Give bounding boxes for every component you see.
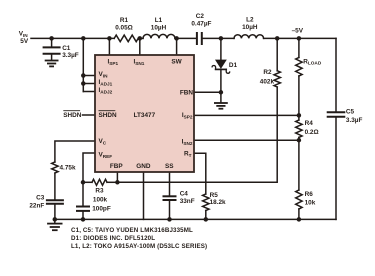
wire R4 to ISN2 node: [298, 137, 300, 190]
svg-text:18.2k: 18.2k: [210, 199, 226, 206]
wire R3 to FBP node: [107, 181, 117, 183]
wire right column top to C5: [335, 38, 337, 111]
resistor RLOAD: [296, 58, 302, 77]
wire RLOAD top: [298, 38, 300, 57]
svg-text:–5V: –5V: [292, 28, 304, 35]
wire top rail left VIN to R1: [31, 37, 114, 39]
wire VIN column: [82, 38, 84, 91]
svg-text:0.2Ω: 0.2Ω: [305, 129, 319, 136]
capacitor C1: [51, 38, 53, 46]
wire stub IADJ1 pin: [83, 83, 95, 85]
wire RLOAD to ISP2 node: [298, 76, 300, 120]
svg-text:C2: C2: [196, 13, 205, 20]
svg-text:C3: C3: [36, 194, 45, 201]
wire stub FBP pin: [116, 172, 118, 182]
svg-text:GND: GND: [136, 163, 151, 170]
node IADJ1 pin: [81, 81, 86, 86]
svg-text:VIN: VIN: [19, 31, 29, 38]
svg-text:L1, L2: TOKO A915AY-100M (D53L: L1, L2: TOKO A915AY-100M (D53LC SERIES): [71, 243, 207, 250]
ground bottom left: [54, 219, 56, 222]
svg-text:10µH: 10µH: [151, 24, 167, 31]
ground below C1: [46, 60, 58, 62]
resistor R5: [203, 194, 209, 211]
svg-text:L1: L1: [155, 17, 163, 24]
wire RT pin to R5: [194, 153, 206, 194]
wire R2 to top rail: [276, 38, 278, 70]
svg-text:SW: SW: [171, 59, 182, 66]
node C4 bottom: [167, 217, 172, 222]
ground below D1: [215, 102, 227, 104]
node R5 bottom: [204, 217, 209, 222]
svg-text:402k: 402k: [260, 79, 275, 86]
svg-text:R3: R3: [95, 188, 104, 195]
capacitor C2: [196, 33, 198, 44]
svg-text:FBP: FBP: [110, 163, 124, 170]
capacitor C5: [328, 111, 345, 113]
resistor R6: [296, 190, 302, 209]
node D1 FBN: [219, 90, 224, 95]
wire L2 to right corner: [264, 37, 336, 39]
capacitor C3: [47, 199, 63, 201]
node SW: [174, 36, 179, 41]
svg-text:R6: R6: [305, 191, 314, 198]
svg-text:RLOAD: RLOAD: [303, 58, 322, 65]
wire VREF junction to R3: [83, 181, 92, 183]
wire R6 to bottom rail: [298, 209, 300, 219]
svg-text:R2: R2: [263, 69, 272, 76]
svg-text:4.75k: 4.75k: [60, 164, 76, 171]
svg-text:C5: C5: [346, 108, 355, 115]
svg-text:C1, C5: TAIYO YUDEN LMK316BJ33: C1, C5: TAIYO YUDEN LMK316BJ335ML: [71, 227, 193, 234]
wire ISN2 pin: [194, 139, 299, 141]
node R2 top: [275, 36, 280, 41]
svg-text:10k: 10k: [305, 199, 316, 206]
svg-text:C1: C1: [62, 45, 71, 52]
node D1 top: [219, 36, 224, 41]
resistor 4.75k: [52, 162, 58, 173]
svg-text:D1: DIODES INC. DFL5120L: D1: DIODES INC. DFL5120L: [71, 235, 155, 242]
inductor L1: [143, 34, 175, 38]
capacitor C4: [164, 195, 176, 197]
node R6 bottom: [297, 217, 302, 222]
node 100pF bottom: [81, 217, 86, 222]
resistor R4: [296, 120, 302, 137]
svg-text:10µH: 10µH: [242, 24, 258, 31]
node VIN pin: [81, 73, 86, 78]
svg-text:LT3477: LT3477: [134, 112, 156, 119]
svg-text:3.3µF: 3.3µF: [346, 117, 363, 124]
wire 4.75k to C3: [54, 173, 56, 199]
svg-text:R5: R5: [210, 192, 219, 199]
wire L1 to C2: [175, 37, 196, 39]
svg-text:100k: 100k: [93, 197, 108, 204]
node ISN2 R4: [297, 138, 302, 143]
wire stub SW pin: [176, 38, 178, 55]
node ISP1: [107, 36, 112, 41]
wire C5 to bottom rail: [335, 118, 337, 220]
wire SS pin to C4: [169, 172, 171, 195]
svg-text:SHDN: SHDN: [99, 112, 117, 119]
resistor R3: [92, 179, 107, 185]
svg-text:SHDN: SHDN: [63, 112, 81, 119]
wire stub IADJ2 pin: [83, 91, 95, 93]
wire VC pin to 4.75k: [55, 141, 95, 162]
wire stub ISP1 pin: [108, 38, 110, 55]
wire D1 anode: [220, 38, 222, 60]
svg-text:5V: 5V: [20, 38, 29, 45]
wire stub ISN1 pin: [139, 38, 141, 55]
svg-text:33nF: 33nF: [180, 198, 195, 205]
node C1 top: [49, 36, 54, 41]
node VIN column top: [81, 36, 86, 41]
svg-text:3.3µF: 3.3µF: [62, 52, 79, 59]
svg-text:22nF: 22nF: [29, 202, 44, 209]
wire FBP node to R2 column: [117, 87, 277, 182]
diode D1: [216, 60, 226, 68]
svg-text:FBN: FBN: [180, 89, 194, 96]
wire stub SHDN pin: [83, 114, 96, 116]
wire FBN pin: [194, 91, 221, 93]
resistor R2: [274, 71, 280, 87]
resistor R1: [114, 35, 138, 42]
svg-text:C4: C4: [180, 191, 189, 198]
wire C2 to L2: [203, 37, 234, 39]
wire bottom rail: [55, 218, 336, 220]
wire VREF pin down: [83, 153, 95, 182]
svg-text:L2: L2: [246, 17, 254, 24]
svg-text:100pF: 100pF: [92, 205, 111, 212]
node -5V RLOAD: [297, 36, 302, 41]
node ISN1: [138, 36, 143, 41]
svg-text:R4: R4: [305, 120, 314, 127]
wire R1 to L1: [138, 37, 143, 39]
svg-text:0.47µF: 0.47µF: [191, 20, 211, 27]
node ISP2 R4: [297, 113, 302, 118]
wire stub VIN pin: [83, 75, 95, 77]
node C3 bottom: [53, 217, 58, 222]
capacitor 100pF: [82, 182, 84, 205]
svg-text:SS: SS: [165, 163, 174, 170]
wire R5 to bottom rail: [205, 211, 207, 220]
svg-text:D1: D1: [229, 62, 238, 69]
op-amp U1 LT3477 IC body: [95, 55, 194, 172]
node FBP: [115, 180, 120, 185]
svg-text:0.05Ω: 0.05Ω: [115, 24, 133, 31]
node VREF R3: [81, 180, 86, 185]
svg-text:R1: R1: [120, 17, 129, 24]
wire GND pin down: [143, 172, 145, 219]
wire ISP2 pin: [194, 114, 299, 116]
wire D1 cathode to ground: [220, 69, 222, 102]
inductor L2: [234, 35, 264, 39]
